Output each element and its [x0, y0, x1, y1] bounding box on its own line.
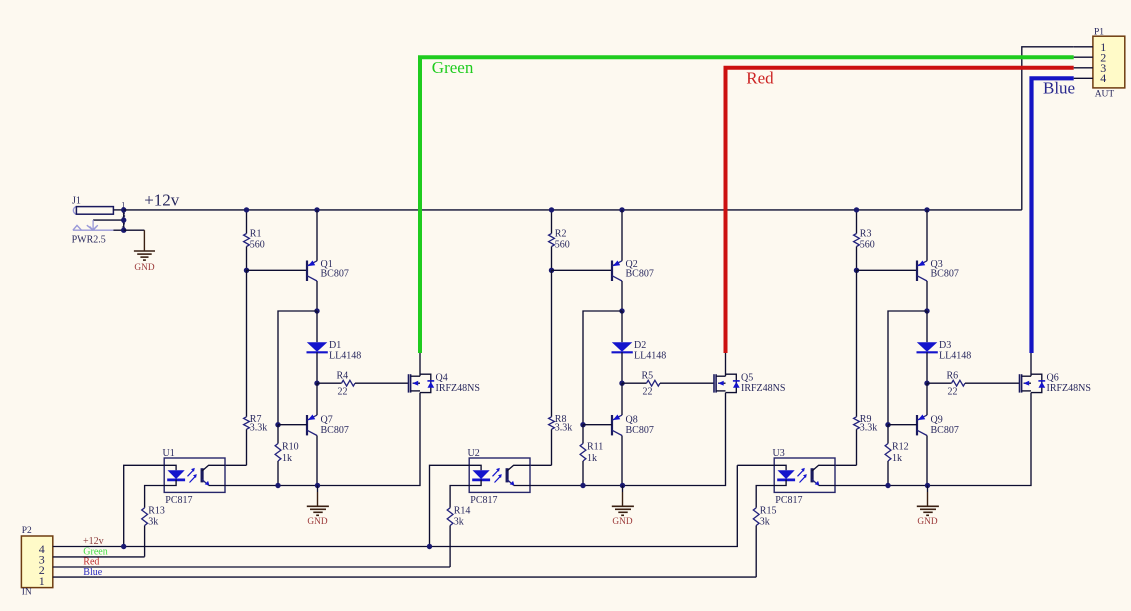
svg-text:Q7: Q7	[321, 415, 333, 426]
transistor Q3 BC807	[917, 210, 959, 311]
svg-text:R6: R6	[947, 371, 959, 382]
svg-text:U3: U3	[773, 448, 785, 459]
svg-text:R2: R2	[555, 228, 567, 239]
resistor R1 560	[244, 210, 265, 270]
svg-text:PC817: PC817	[775, 495, 802, 506]
wire cathode U2 to R14	[450, 486, 469, 508]
svg-text:R1: R1	[250, 228, 262, 239]
svg-text:IRFZ48NS: IRFZ48NS	[741, 383, 785, 394]
resistor R5 22	[622, 371, 714, 398]
svg-text:3.3k: 3.3k	[860, 423, 878, 434]
junction anode U1 on +12v row	[121, 544, 126, 549]
svg-text:560: 560	[250, 239, 265, 250]
svg-text:U1: U1	[163, 448, 175, 459]
wire +12v riser to P1 pin1	[1022, 47, 1074, 210]
resistor R4 22	[317, 371, 409, 398]
junction R11 on ground net	[580, 483, 585, 488]
wire Blue row from P2.1	[53, 576, 756, 578]
junction collector Q1	[314, 308, 319, 313]
svg-text:1k: 1k	[282, 453, 292, 464]
junction GND on ground net	[620, 483, 625, 488]
resistor R9 3.3k	[835, 414, 877, 465]
svg-text:Red: Red	[746, 69, 774, 88]
wire +12v row from P2.4	[53, 465, 738, 546]
transistor Q8 BC807	[612, 383, 654, 485]
svg-text:PC817: PC817	[470, 495, 497, 506]
junction base node Q3	[854, 268, 859, 273]
junction R12 on ground net	[885, 483, 890, 488]
svg-text:R5: R5	[642, 371, 654, 382]
svg-text:GND: GND	[134, 263, 154, 273]
junction rail R2	[549, 207, 554, 212]
svg-text:3k: 3k	[148, 517, 158, 528]
resistor R13 3k	[142, 506, 165, 557]
ground GND	[917, 486, 939, 527]
junction diode node	[314, 381, 319, 386]
optocoupler U2 PC817	[468, 448, 531, 506]
junction rail Q2	[619, 207, 624, 212]
ground GND	[307, 486, 329, 527]
transistor Q1 BC807	[307, 210, 349, 311]
wire emitter U1 / source Q4 ground net	[225, 393, 420, 486]
svg-text:1k: 1k	[892, 453, 902, 464]
wire base of Q2	[552, 269, 613, 271]
junction base Q7	[275, 422, 280, 427]
ground GND at J1	[124, 230, 155, 273]
svg-text:AUT: AUT	[1095, 89, 1115, 99]
svg-text:Blue: Blue	[83, 567, 102, 578]
svg-text:22: 22	[948, 387, 958, 398]
svg-text:Q9: Q9	[931, 415, 943, 426]
mosfet Q5 IRFZ48NS	[714, 353, 785, 394]
resistor R12 1k	[885, 425, 909, 486]
svg-text:BC807: BC807	[931, 425, 959, 436]
svg-text:IRFZ48NS: IRFZ48NS	[436, 383, 480, 394]
resistor R15 3k	[753, 506, 776, 578]
junction collector Q2	[619, 308, 624, 313]
junction base Q9	[885, 422, 890, 427]
svg-text:U2: U2	[468, 448, 480, 459]
junction rail Q1	[314, 207, 319, 212]
wire Red row from P2.2	[53, 566, 450, 568]
svg-text:22: 22	[643, 387, 653, 398]
ground GND	[612, 486, 634, 527]
svg-text:LL4148: LL4148	[939, 350, 971, 361]
transistor Q2 BC807	[612, 210, 654, 311]
mosfet Q6 IRFZ48NS	[1020, 353, 1091, 394]
svg-text:22: 22	[338, 387, 348, 398]
diode D3 LL4148	[917, 311, 972, 383]
svg-text:560: 560	[860, 239, 875, 250]
transistor Q9 BC807	[917, 383, 959, 485]
svg-text:1k: 1k	[587, 453, 597, 464]
resistor R10 1k	[275, 425, 299, 486]
junction collector Q3	[924, 308, 929, 313]
resistor R2 560	[549, 210, 570, 270]
wire anode U3 (corner of +12v row)	[737, 464, 774, 466]
resistor R6 22	[927, 371, 1020, 398]
resistor R14 3k	[447, 506, 470, 567]
svg-text:R3: R3	[860, 228, 872, 239]
wire emitter U3 / source Q6 ground net	[835, 393, 1031, 486]
transistor Q7 BC807	[307, 383, 349, 485]
svg-text:P2: P2	[22, 526, 32, 536]
svg-text:IN: IN	[22, 588, 32, 598]
wire Blue net (thick)	[1032, 78, 1074, 353]
svg-text:R11: R11	[587, 442, 603, 453]
wire anode U2 to +12v row	[430, 465, 470, 546]
svg-text:GND: GND	[917, 517, 937, 527]
svg-text:LL4148: LL4148	[329, 350, 361, 361]
svg-text:J1: J1	[72, 195, 81, 206]
wire +12v rail	[124, 209, 1022, 211]
svg-text:Green: Green	[432, 58, 474, 77]
optocoupler U3 PC817	[773, 448, 836, 506]
wire Green net (thick)	[420, 57, 1074, 353]
wire anode U1 to +12v row	[124, 465, 165, 546]
svg-text:IRFZ48NS: IRFZ48NS	[1047, 383, 1091, 394]
svg-text:R15: R15	[760, 506, 777, 517]
svg-text:GND: GND	[612, 517, 632, 527]
junction J1 pin3	[121, 217, 126, 222]
svg-text:3k: 3k	[760, 517, 770, 528]
junction rail R1	[244, 207, 249, 212]
wire base of Q7	[278, 424, 307, 426]
resistor R8 3.3k	[530, 414, 572, 465]
junction GND on ground net	[925, 483, 930, 488]
junction GND on ground net	[315, 483, 320, 488]
resistor R11 1k	[580, 425, 603, 486]
svg-text:+12v: +12v	[144, 191, 180, 210]
junction R10 on ground net	[275, 483, 280, 488]
svg-text:PWR2.5: PWR2.5	[72, 235, 106, 246]
svg-text:3.3k: 3.3k	[555, 423, 573, 434]
resistor R7 3.3k	[225, 414, 267, 465]
junction J1 pin1	[121, 207, 126, 212]
wire cathode U1 to R13	[145, 486, 165, 508]
svg-text:BC807: BC807	[321, 269, 349, 280]
P1 pin 1	[1074, 46, 1093, 48]
svg-text:LL4148: LL4148	[634, 350, 666, 361]
junction J1 pin2	[121, 228, 126, 233]
svg-text:R13: R13	[148, 506, 165, 517]
wire R3 to R9	[856, 270, 858, 417]
svg-text:R12: R12	[892, 442, 909, 453]
junction rail Q3	[924, 207, 929, 212]
junction diode node	[619, 381, 624, 386]
svg-text:BC807: BC807	[626, 269, 654, 280]
wire R2 to R8	[551, 270, 553, 417]
wire emitter U2 / source Q5 ground net	[530, 393, 726, 486]
P1 pin 2	[1074, 56, 1093, 58]
svg-text:R4: R4	[337, 371, 349, 382]
svg-text:Red: Red	[83, 556, 99, 567]
wire collector Q1 to R10 column	[278, 311, 317, 425]
P1 pin 4	[1074, 77, 1093, 79]
svg-text:BC807: BC807	[931, 269, 959, 280]
svg-text:+12v: +12v	[83, 536, 104, 547]
junction rail R3	[854, 207, 859, 212]
svg-text:Blue: Blue	[1043, 78, 1075, 97]
P1 pin 3	[1074, 67, 1093, 69]
svg-text:P1: P1	[1094, 27, 1104, 37]
connector P2	[21, 526, 52, 598]
wire Green row from P2.3	[53, 556, 145, 558]
svg-text:BC807: BC807	[321, 425, 349, 436]
wire Red net (thick)	[726, 68, 1074, 353]
svg-text:GND: GND	[307, 517, 327, 527]
svg-text:R10: R10	[282, 442, 299, 453]
svg-text:560: 560	[555, 239, 570, 250]
svg-text:PC817: PC817	[165, 495, 192, 506]
svg-text:BC807: BC807	[626, 425, 654, 436]
svg-text:Q8: Q8	[626, 415, 638, 426]
diode D2 LL4148	[612, 311, 667, 383]
wire cathode U3 to R15	[756, 486, 774, 508]
wire base of Q8	[583, 424, 612, 426]
junction base Q8	[580, 422, 585, 427]
wire collector Q2 to R11 column	[583, 311, 622, 425]
svg-text:3.3k: 3.3k	[250, 423, 267, 434]
svg-text:1: 1	[39, 574, 45, 588]
junction base node Q1	[244, 268, 249, 273]
wire R1 to R7	[246, 270, 248, 417]
wire base of Q3	[857, 269, 918, 271]
wire collector Q3 to R12 column	[888, 311, 927, 425]
mosfet Q4 IRFZ48NS	[409, 353, 480, 394]
junction base node Q2	[549, 268, 554, 273]
wire base of Q1	[247, 269, 308, 271]
junction anode U2 on +12v row	[427, 544, 432, 549]
diode D1 LL4148	[307, 311, 362, 383]
svg-text:R14: R14	[454, 506, 471, 517]
wire base of Q9	[888, 424, 917, 426]
connector J1 PWR2.5	[72, 195, 126, 245]
junction diode node	[924, 381, 929, 386]
optocoupler U1 PC817	[163, 448, 226, 506]
connector P1	[1093, 27, 1125, 99]
svg-text:3k: 3k	[454, 517, 464, 528]
svg-text:4: 4	[1100, 71, 1106, 85]
resistor R3 560	[854, 210, 875, 270]
